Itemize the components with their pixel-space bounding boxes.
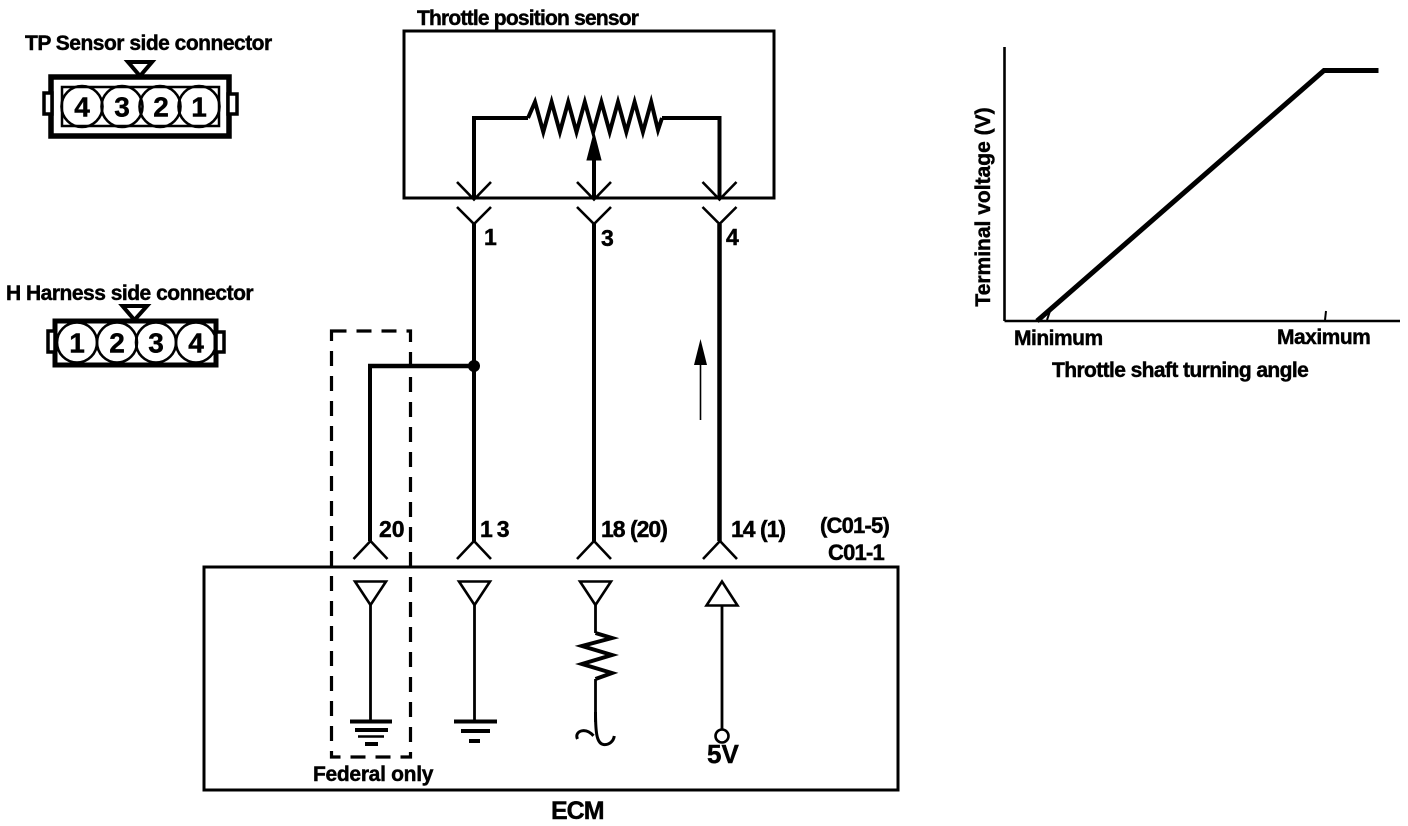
connector TP sensor: right lock tab [228,94,237,114]
svg-text:2: 2 [109,328,125,359]
svg-text:2: 2 [153,92,169,123]
harness fork at ECM terminal 14 [703,541,737,559]
potentiometer wiper arrow (points up at resistor) [587,133,601,160]
svg-text:4: 4 [188,328,204,359]
svg-text:Minimum: Minimum [1014,327,1103,350]
connector TP sensor: cavity pin 2 [140,86,181,127]
graph curve: rising voltage line [1037,71,1379,322]
svg-text:13: 13 [480,516,510,542]
svg-text:4: 4 [726,224,739,250]
svg-text:Maximum: Maximum [1277,326,1370,349]
inline connector chevrons on wire pin 3 [577,182,611,224]
resistor in ECM (vertical zigzag) [582,633,612,679]
svg-text:14 (1): 14 (1) [731,516,785,542]
potentiometer resistor R (zigzag) [528,102,662,132]
ECM input triangle terminal 13 [459,582,490,606]
connector harness: cavity pin 3 [136,323,176,363]
wire: terminal 20 to ground [369,605,372,721]
svg-text:TP Sensor side connector: TP Sensor side connector [25,32,272,55]
svg-text:Throttle position sensor: Throttle position sensor [417,7,639,30]
svg-text:C01-1: C01-1 [828,540,884,565]
dashed box: Federal only region [332,331,411,757]
throttle position sensor box [404,31,774,198]
svg-text:Terminal voltage (V): Terminal voltage (V) [972,107,995,306]
connector TP sensor: left lock tab [44,93,52,114]
ground (terminal 13) [454,722,497,742]
wire: terminal 13 to ground [473,605,476,721]
ECM box [204,567,898,790]
connector TP sensor: index triangle [128,62,152,76]
wire: branch to Federal-only ground (horizontal) [368,364,474,369]
connector TP sensor: cavity pin 4 [62,86,103,127]
5V source terminal circle [716,730,729,743]
graph Y axis [1003,47,1006,321]
svg-text:3: 3 [601,225,614,251]
svg-text:ECM: ECM [551,797,604,825]
svg-text:5V: 5V [707,739,739,769]
svg-text:H Harness side connector: H Harness side connector [6,282,253,305]
connector harness: right lock tab [216,332,224,352]
harness fork at ECM terminal 20 [354,541,388,559]
wire: wiper stem down to box bottom [592,158,596,198]
connector TP sensor: outer shell [51,77,229,136]
wire: pin3 to ECM terminal 18 [592,224,596,541]
svg-text:4: 4 [74,92,90,123]
ground (Federal only) [350,722,392,745]
connector harness: cavity pin 1 [57,323,97,363]
hook end (to other circuit) [577,712,615,745]
connector TP sensor: cavity pin 3 [102,86,143,127]
current direction arrow (5V feed, points up) [694,339,707,365]
wire: pin1 to ECM terminal 13 [472,224,476,541]
connector TP sensor: inner face [62,87,219,126]
svg-text:18 (20): 18 (20) [601,516,667,542]
connector harness: left lock tab [48,331,55,352]
svg-text:20: 20 [379,516,405,542]
connector harness: shell [55,321,216,365]
wire: resistor to hook end [594,679,597,722]
wire: pin4 to ECM terminal 14 [717,224,722,541]
ECM input triangle terminal 20 [355,582,386,606]
svg-text:3: 3 [114,92,130,123]
wire: right lead from resistor to pin 4 wire [662,118,720,198]
graph tick at maximum [1325,311,1326,320]
svg-text:Federal only: Federal only [313,763,434,786]
node: junction dot on wire 13 [468,360,480,372]
svg-text:3: 3 [148,328,164,359]
graph tick at minimum [1047,311,1050,320]
svg-text:1: 1 [484,224,497,250]
svg-text:1: 1 [191,92,207,123]
ECM output triangle terminal 14 (5V) [707,582,738,606]
inline connector chevrons on wire pin 1 [457,182,491,224]
wire: 5V source to terminal 14 [721,606,724,730]
wire: terminal 18 to pull resistor [594,605,597,633]
connector TP sensor: cavity pin 1 [179,86,220,127]
harness fork at ECM terminal 13 [457,541,491,559]
connector harness: cavity pin 4 [176,323,216,363]
svg-text:(C01-5): (C01-5) [820,513,889,538]
svg-text:Throttle shaft turning angle: Throttle shaft turning angle [1052,359,1308,382]
wire: left lead from pin 1 wire to resistor [474,118,528,198]
graph X axis [1005,320,1401,323]
wire: branch down to ECM terminal 20 [368,364,372,541]
connector harness: index triangle [123,306,148,320]
ECM input triangle terminal 18 [580,582,611,606]
harness fork at ECM terminal 18 [577,541,611,559]
svg-text:1: 1 [69,328,85,359]
inline connector chevrons on wire pin 4 [703,182,737,224]
connector harness: cavity pin 2 [97,323,137,363]
